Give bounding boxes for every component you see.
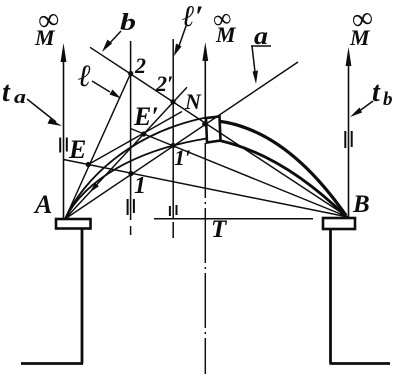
node E': [141, 131, 146, 136]
svg-text:T: T: [211, 216, 228, 243]
arrowhead on t_b: [346, 47, 352, 66]
arrowhead on axis: [202, 42, 208, 61]
node 2: [128, 71, 133, 76]
springing horizontal line through T: [154, 218, 313, 220]
arch outer curve right half: [220, 121, 347, 215]
center axis with arrow (M infinity direction): [204, 59, 206, 122]
node N (crown hinge): [202, 122, 207, 127]
tick marks on t_a: [60, 138, 67, 153]
keystone rectangle at crown: [206, 117, 221, 143]
right support cap at B: [323, 218, 355, 229]
vertical line l' (through points 2' and 1'): [172, 39, 174, 238]
chord line b: from upper-left through 2, 2', N to B: [90, 47, 348, 217]
right ground line: [330, 362, 391, 365]
left ground line: [21, 362, 83, 365]
tick marks on t_b: [345, 131, 351, 148]
svg-text:b: b: [120, 10, 136, 36]
svg-text:a: a: [14, 87, 27, 108]
left pillar: [81, 229, 84, 364]
node E: [86, 162, 91, 167]
node 1: [128, 171, 133, 176]
line B - 1' - E': [131, 129, 349, 218]
line A to E' to 2': [65, 87, 187, 219]
arch inner curve right half: [220, 141, 346, 217]
vertical line l (through points 2 and 1): [130, 41, 132, 235]
right pillar: [329, 229, 332, 364]
left support cap at A: [56, 219, 91, 229]
line l leader target: A to 2: [65, 74, 131, 220]
axis dash-dot centerline below crown: [204, 143, 206, 374]
tangent line t_a (left vertical): [63, 60, 65, 219]
line E - E' extended past l': [88, 112, 182, 165]
node 1': [171, 143, 176, 148]
line t_a - E - 1 - B: [64, 160, 349, 218]
arrowhead on t_a: [61, 43, 67, 62]
svg-text:1′: 1′: [174, 145, 191, 170]
arch outer curve left half: [65, 118, 206, 220]
svg-text:N: N: [184, 89, 202, 114]
direction arrowhead on line A-E': [90, 183, 99, 193]
svg-text:A: A: [33, 190, 52, 219]
svg-text:1: 1: [134, 173, 146, 199]
svg-text:2′: 2′: [155, 71, 173, 96]
arch inner curve left half: [65, 139, 207, 220]
svg-text:t: t: [2, 77, 11, 108]
tick marks on vertical l': [170, 205, 177, 216]
tick marks on vertical l: [128, 199, 134, 215]
svg-text:b: b: [383, 89, 393, 110]
svg-text:B: B: [352, 191, 370, 218]
svg-text:E: E: [68, 135, 86, 164]
svg-text:ℓ: ℓ: [78, 58, 91, 93]
chord line a: A through 1, 1', N extended up-right: [65, 62, 298, 219]
svg-text:t: t: [372, 77, 381, 108]
svg-text:E′: E′: [133, 102, 159, 131]
svg-text:2: 2: [134, 53, 146, 78]
tangent line t_b (right vertical): [348, 64, 350, 217]
node 2': [170, 99, 175, 104]
